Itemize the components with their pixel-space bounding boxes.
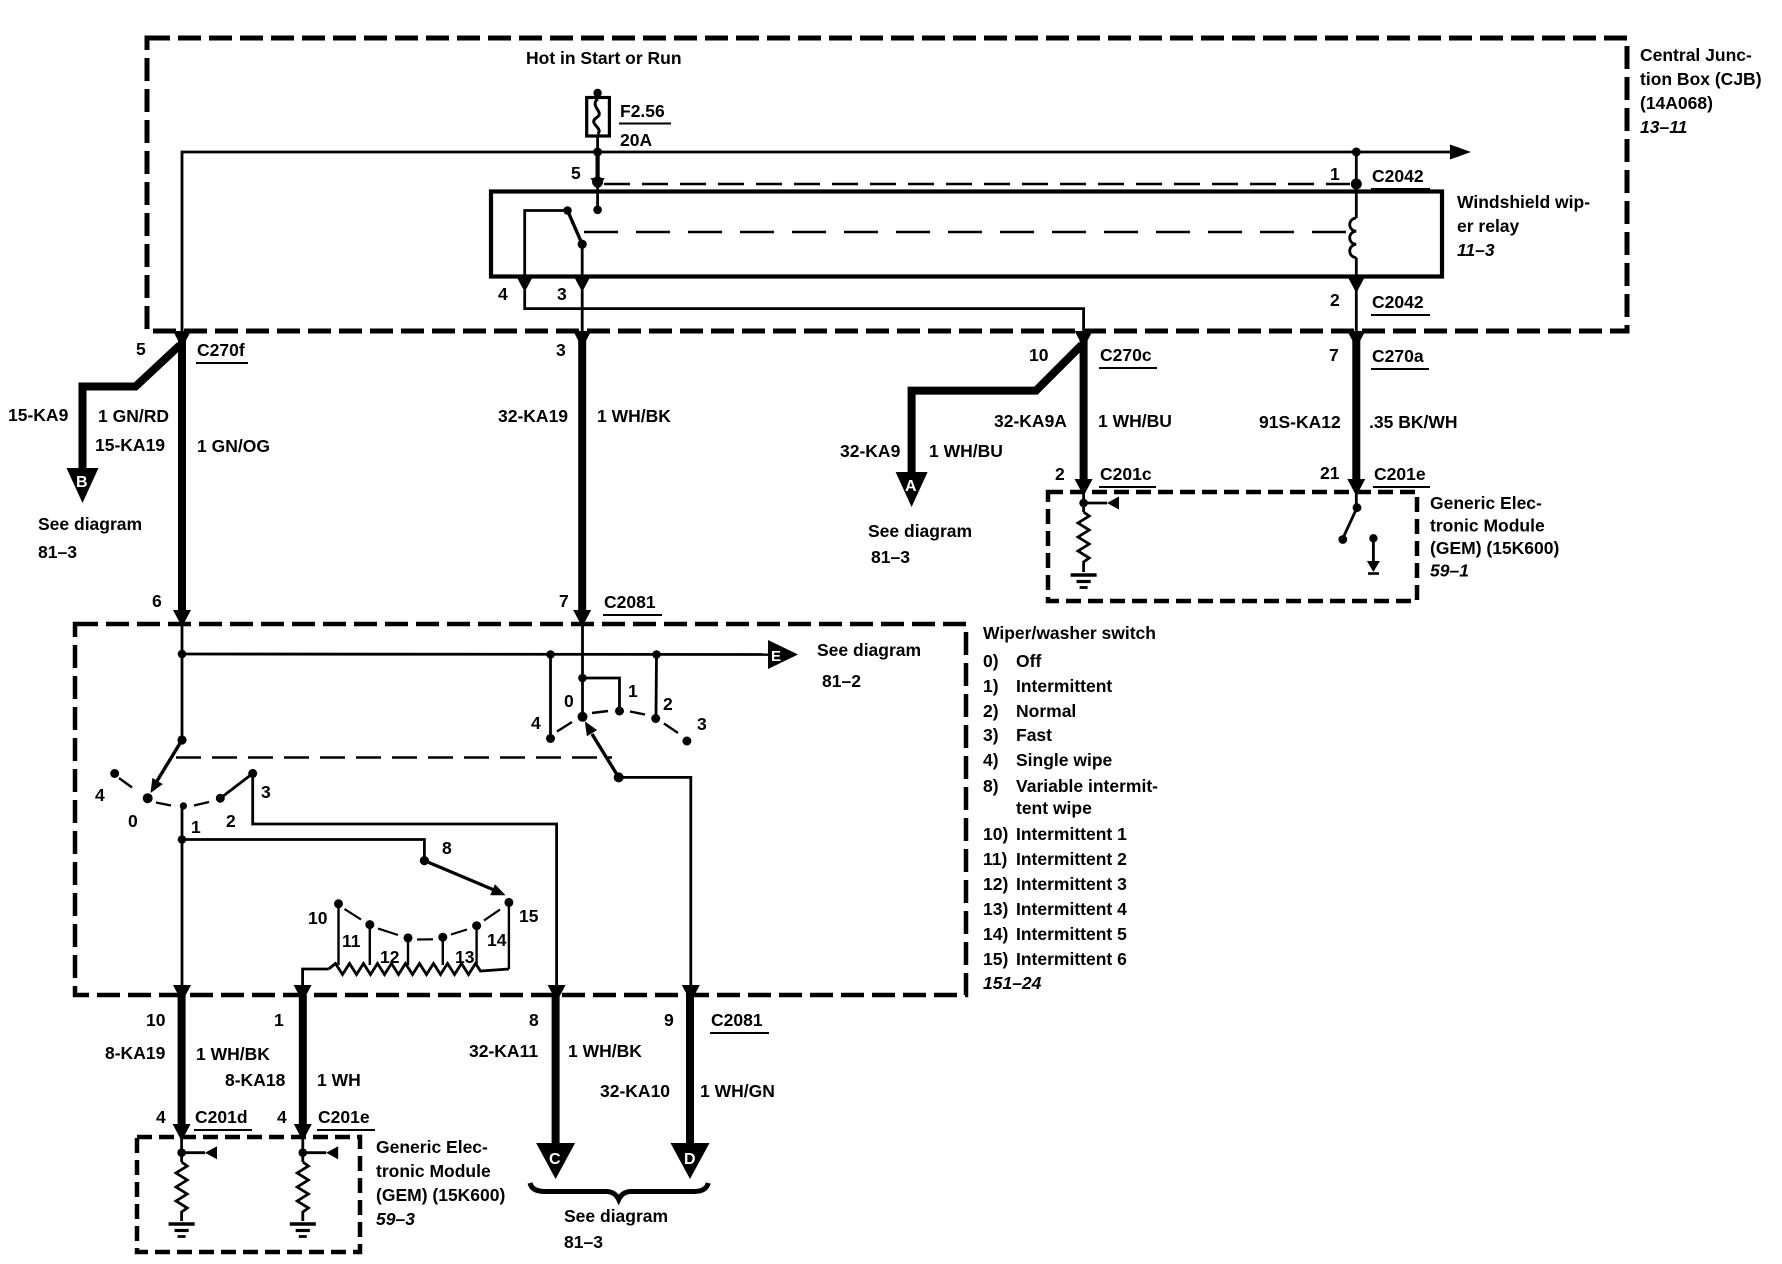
svg-text:10: 10 (146, 1010, 166, 1030)
svg-text:C270f: C270f (197, 340, 245, 360)
arrowhead pin21 into GEM (1347, 479, 1365, 496)
ground (GEM 59-1) (1071, 573, 1097, 577)
svg-text:Off: Off (1016, 651, 1041, 671)
svg-text:8): 8) (983, 776, 999, 796)
wire pin1 to coil (1355, 152, 1358, 218)
svg-text:4: 4 (498, 284, 508, 304)
node left switch pivot (177, 735, 186, 744)
svg-text:Generic Elec-: Generic Elec- (376, 1137, 488, 1157)
svg-text:13): 13) (983, 899, 1008, 919)
svg-text:0): 0) (983, 651, 999, 671)
svg-text:1 WH/BK: 1 WH/BK (568, 1041, 642, 1061)
svg-text:C201e: C201e (1374, 464, 1426, 484)
svg-text:C201d: C201d (195, 1107, 248, 1127)
node relay NC contact (563, 206, 572, 215)
dashed linkage blade to coil (584, 231, 1349, 234)
connector arrowhead wire 3 (573, 331, 591, 348)
connector C270f arrowhead (173, 331, 191, 348)
node: pin1 junction on feed wire (1352, 148, 1361, 157)
svg-text:32-KA19: 32-KA19 (498, 406, 568, 426)
svg-text:1 WH: 1 WH (317, 1070, 361, 1090)
selector arc dashes (345, 909, 501, 940)
svg-text:Variable intermit-: Variable intermit- (1016, 776, 1158, 796)
arrowhead pin7 into switch box (573, 610, 591, 627)
svg-text:1: 1 (1330, 164, 1340, 184)
svg-text:4: 4 (277, 1107, 287, 1127)
svg-text:Intermittent 5: Intermittent 5 (1016, 924, 1127, 944)
wire pin10 inner vertical (181, 806, 184, 986)
GEM2 input node (C201d) (177, 1148, 186, 1157)
svg-text:Single wipe: Single wipe (1016, 750, 1113, 770)
svg-text:8: 8 (529, 1010, 539, 1030)
GEM2 input node (C201e) (299, 1148, 308, 1157)
svg-text:1 WH/BK: 1 WH/BK (597, 406, 671, 426)
wire thick branch to B (83, 345, 181, 470)
svg-text:Intermittent: Intermittent (1016, 676, 1112, 696)
svg-text:4: 4 (156, 1107, 166, 1127)
arrowhead pin 3 leaving relay (574, 277, 590, 292)
svg-text:tronic Module: tronic Module (1430, 516, 1545, 536)
node E-line junction contact4R (546, 650, 555, 659)
wire pin2 to CJB border (1355, 290, 1358, 331)
svg-text:81–3: 81–3 (871, 547, 910, 567)
svg-text:9: 9 (664, 1010, 674, 1030)
wire contact 2L to 3L (220, 774, 252, 799)
arrowhead pin6 into switch box (173, 610, 191, 627)
svg-text:21: 21 (1320, 463, 1340, 483)
svg-text:C270a: C270a (1372, 346, 1424, 366)
variable resistor zigzag (329, 964, 509, 975)
svg-text:6: 6 (152, 591, 162, 611)
svg-text:C201c: C201c (1100, 464, 1152, 484)
right switch blade with arrow (592, 734, 619, 777)
wire pin5 inner stub (596, 189, 599, 206)
wire thick drop C270c to GEM pin2 (1080, 340, 1088, 487)
node GEM switch pivot (1353, 503, 1362, 512)
wire thick drop C270a to GEM pin21 (1352, 340, 1360, 487)
svg-text:20A: 20A (620, 130, 652, 150)
svg-text:3: 3 (697, 714, 707, 734)
arrowhead pin2 into GEM (1075, 479, 1093, 496)
svg-text:15): 15) (983, 949, 1008, 969)
wire junction to selector pivot (182, 840, 424, 858)
relay coil (1350, 218, 1357, 258)
svg-text:8-KA18: 8-KA18 (225, 1070, 286, 1090)
contact 4R node (546, 734, 555, 743)
svg-text:Intermittent 3: Intermittent 3 (1016, 874, 1127, 894)
node selector pivot 8 (420, 856, 429, 865)
contact 0R node (578, 712, 588, 722)
svg-text:2: 2 (1055, 464, 1065, 484)
CJB name label (1640, 45, 1762, 137)
GEM input node pin2 (1079, 499, 1088, 508)
wire: hot feed horizontal with arrow (182, 152, 1452, 331)
windshield wiper relay box (491, 192, 1442, 277)
svg-text:2: 2 (1330, 290, 1340, 310)
arrow A triangle (896, 472, 928, 507)
Central Junction Box (CJB) dashed enclosure (147, 38, 1627, 331)
svg-text:Intermittent 6: Intermittent 6 (1016, 949, 1127, 969)
svg-text:See diagram: See diagram (38, 514, 142, 534)
connector C270a arrowhead (1347, 331, 1365, 348)
GEM (59-1) dashed box (1048, 492, 1417, 601)
dashed mechanical linkage (176, 756, 612, 759)
arrow E triangle (768, 640, 798, 669)
svg-text:32-KA11: 32-KA11 (469, 1041, 538, 1061)
wire thick pin10 to GEM2 (178, 995, 186, 1132)
svg-text:11: 11 (342, 931, 361, 951)
node wiper feed junction (178, 835, 187, 844)
svg-text:81–3: 81–3 (38, 542, 77, 562)
contact 4L arc stub (119, 778, 132, 788)
contact 10 node (334, 899, 343, 908)
contact 2R node (651, 714, 660, 723)
GEM 59-1 name label (1430, 493, 1559, 581)
svg-text:32-KA9: 32-KA9 (840, 441, 901, 461)
svg-text:C2042: C2042 (1372, 166, 1424, 186)
ground (GEM2 left) (169, 1222, 195, 1226)
svg-text:E: E (771, 648, 781, 665)
svg-text:C2081: C2081 (604, 592, 656, 612)
svg-text:(GEM) (15K600): (GEM) (15K600) (376, 1185, 505, 1205)
svg-text:81–3: 81–3 (564, 1232, 603, 1252)
svg-text:3: 3 (556, 340, 566, 360)
brace under C and D (530, 1183, 708, 1200)
svg-text:3: 3 (261, 782, 271, 802)
svg-text:7: 7 (1329, 345, 1339, 365)
svg-text:D: D (684, 1151, 696, 1168)
wire thick pin1 to GEM2 (299, 995, 307, 1132)
svg-text:Central Junc-: Central Junc- (1640, 45, 1752, 65)
GEM2 resistor (left) (176, 1162, 187, 1221)
svg-text:8: 8 (442, 838, 452, 858)
contact 2L node (216, 794, 225, 803)
contact 11 node (365, 920, 374, 929)
contact 1L node (180, 802, 187, 809)
node right switch pivot (614, 772, 624, 782)
svg-text:32-KA10: 32-KA10 (600, 1081, 670, 1101)
svg-text:1: 1 (191, 817, 201, 837)
wire contact 2R drop (655, 655, 658, 716)
svg-text:1): 1) (983, 676, 999, 696)
node speed switch tee (578, 674, 587, 683)
svg-text:1: 1 (274, 1010, 284, 1030)
svg-text:See diagram: See diagram (817, 640, 921, 660)
svg-text:C270c: C270c (1100, 345, 1152, 365)
svg-text:15-KA9: 15-KA9 (8, 405, 69, 425)
wire pin21 inner stub (1355, 492, 1358, 505)
wire pin4 to C270c drop (525, 290, 1084, 331)
svg-text:4: 4 (531, 713, 541, 733)
arrowhead pin10 at box bottom (173, 985, 191, 1002)
svg-text:C2042: C2042 (1372, 292, 1424, 312)
svg-text:2: 2 (663, 694, 673, 714)
wire pivot to pin9 drop (619, 777, 691, 986)
arrowhead pin4 C201d into GEM2 (173, 1124, 191, 1141)
contact 12 node (404, 933, 413, 942)
svg-text:15: 15 (519, 906, 539, 926)
GEM2 resistor (right) (297, 1162, 308, 1221)
wire contact 3L to pin8 drop (253, 774, 557, 987)
svg-text:B: B (76, 474, 88, 491)
wire pin7 inner vertical (581, 624, 584, 714)
node E-line junction contact2R (652, 650, 661, 659)
svg-text:91S-KA12: 91S-KA12 (1259, 412, 1341, 432)
svg-text:10: 10 (1029, 345, 1049, 365)
wire pin6 inner vertical (181, 624, 184, 740)
GEM switch blade (1343, 508, 1357, 538)
contact 14 node (472, 921, 481, 930)
wire C201d inner stub (180, 1137, 183, 1162)
GEM2 signal tap symbol (left) (182, 1151, 205, 1154)
node GEM switch blade end (1338, 535, 1347, 544)
svg-text:See diagram: See diagram (564, 1206, 668, 1226)
contact stubs down to resistor (339, 902, 509, 969)
node relay common (578, 240, 587, 249)
contact 13 node (438, 933, 447, 942)
svg-text:2): 2) (983, 701, 999, 721)
contact 3L node (248, 769, 257, 778)
wire pin3 to CJB border (581, 290, 584, 331)
svg-text:1 WH/GN: 1 WH/GN (700, 1081, 775, 1101)
svg-text:14: 14 (487, 930, 507, 950)
svg-text:4): 4) (983, 750, 999, 770)
wire thick pin8 to C (552, 995, 560, 1144)
svg-text:F2.56: F2.56 (620, 101, 665, 121)
GEM 59-3 name label (376, 1137, 505, 1229)
contact 4L node (110, 769, 119, 778)
dashed relay socket line pin5 to pin1 (604, 183, 1350, 186)
switch position list (983, 651, 1158, 993)
arrowhead of feed wire (1450, 145, 1471, 160)
wire contact 4R drop (549, 655, 552, 736)
svg-text:5: 5 (571, 163, 581, 183)
svg-text:1 WH/BU: 1 WH/BU (1098, 411, 1172, 431)
arrow D triangle (671, 1143, 710, 1179)
svg-text:Intermittent 4: Intermittent 4 (1016, 899, 1127, 919)
svg-text:Windshield wip-: Windshield wip- (1457, 192, 1590, 212)
svg-text:A: A (905, 478, 917, 495)
svg-text:tion Box (CJB): tion Box (CJB) (1640, 69, 1762, 89)
svg-text:.35 BK/WH: .35 BK/WH (1369, 412, 1457, 432)
svg-text:C: C (549, 1151, 561, 1168)
connector bump pin 5 (592, 177, 603, 188)
wire fuse top stub (596, 93, 599, 98)
svg-text:0: 0 (128, 811, 138, 831)
svg-text:10: 10 (308, 908, 328, 928)
svg-text:(GEM) (15K600): (GEM) (15K600) (1430, 538, 1559, 558)
arrowhead pin1 at box bottom (294, 985, 312, 1002)
wire tee to contact 1R (583, 678, 620, 708)
svg-text:14): 14) (983, 924, 1008, 944)
fuse F2.56 20A (587, 98, 610, 137)
selector blade with arrow (424, 861, 494, 890)
svg-text:4: 4 (95, 785, 105, 805)
wire thick pin9 to D (686, 995, 694, 1144)
arrowhead pin 4 leaving relay (517, 277, 533, 292)
node: fuse top terminal (593, 89, 601, 97)
relay name label (1457, 192, 1590, 260)
svg-text:(14A068): (14A068) (1640, 93, 1713, 113)
svg-text:11–3: 11–3 (1457, 240, 1495, 260)
svg-text:C2081: C2081 (711, 1010, 763, 1030)
svg-text:59–1: 59–1 (1430, 561, 1469, 581)
wire C201e inner stub (301, 1137, 304, 1162)
wire fuse bottom to feed line (596, 136, 599, 152)
svg-text:1 WH/BK: 1 WH/BK (196, 1044, 270, 1064)
svg-text:151–24: 151–24 (983, 973, 1042, 993)
contact 1R node (615, 707, 624, 716)
svg-text:Hot in Start or Run: Hot in Start or Run (526, 48, 682, 68)
arrowhead pin 2 leaving relay (1348, 278, 1364, 293)
arrowhead pin8 at box bottom (548, 985, 566, 1002)
relay switch blade (568, 211, 583, 245)
contact 0L node (143, 793, 153, 803)
svg-text:3: 3 (557, 284, 567, 304)
left switch arc dashes (156, 802, 209, 806)
svg-text:81–2: 81–2 (822, 671, 861, 691)
svg-text:0: 0 (564, 691, 574, 711)
svg-text:1: 1 (628, 681, 638, 701)
svg-text:13: 13 (455, 947, 475, 967)
wire thick branch to A (912, 345, 1082, 474)
svg-text:13–11: 13–11 (1640, 117, 1687, 137)
arrow C triangle (536, 1143, 575, 1179)
svg-text:1 GN/RD: 1 GN/RD (98, 406, 169, 426)
connector bump pin 1 (1351, 179, 1362, 190)
wire relay pin 5 drop (595, 152, 599, 178)
connector C270c arrowhead (1075, 331, 1093, 348)
GEM pulldown resistor (1078, 512, 1089, 572)
svg-text:tent wipe: tent wipe (1016, 798, 1092, 818)
GEM signal tap symbol (1084, 502, 1107, 505)
wire resistor to pin1 drop (303, 969, 329, 986)
wiper/washer switch dashed box (75, 624, 966, 995)
svg-text:1 GN/OG: 1 GN/OG (197, 436, 270, 456)
svg-text:10): 10) (983, 824, 1008, 844)
svg-text:Normal: Normal (1016, 701, 1076, 721)
wire common to pin3 (581, 244, 584, 277)
svg-text:See diagram: See diagram (868, 521, 972, 541)
wire E line (182, 653, 769, 656)
wire thick drop C270f to switch pin6 (178, 340, 186, 618)
svg-text:15-KA19: 15-KA19 (95, 435, 165, 455)
svg-text:Wiper/washer switch: Wiper/washer switch (983, 623, 1156, 643)
contact 15 node (504, 898, 513, 907)
svg-text:Fast: Fast (1016, 725, 1052, 745)
svg-text:12): 12) (983, 874, 1008, 894)
node relay NO contact (pin 5) (593, 206, 602, 215)
node: fuse junction (593, 148, 602, 157)
svg-text:C201e: C201e (318, 1107, 370, 1127)
svg-text:59–3: 59–3 (376, 1209, 415, 1229)
GEM switch contact (1369, 534, 1377, 542)
right switch arc dashes (557, 711, 678, 733)
node E-line junction (178, 650, 187, 659)
wire pin2 inner stub (1082, 492, 1085, 512)
svg-text:7: 7 (559, 591, 569, 611)
relay contact: pin4 branch (525, 211, 568, 277)
svg-text:1 WH/BU: 1 WH/BU (929, 441, 1003, 461)
svg-text:2: 2 (226, 811, 236, 831)
arrowhead pin 5 into relay (591, 178, 605, 191)
contact 3R node (682, 737, 691, 746)
svg-text:Intermittent 2: Intermittent 2 (1016, 849, 1127, 869)
svg-text:32-KA9A: 32-KA9A (994, 411, 1067, 431)
svg-text:11): 11) (983, 849, 1007, 869)
ground (GEM2 right) (290, 1222, 316, 1226)
svg-text:8-KA19: 8-KA19 (105, 1043, 166, 1063)
svg-text:5: 5 (136, 339, 146, 359)
left switch blade with arrow (157, 740, 182, 781)
GEM2 signal tap symbol (right) (303, 1151, 326, 1154)
svg-text:er relay: er relay (1457, 216, 1520, 236)
wire thick drop to switch pin7 (578, 340, 586, 618)
arrowhead pin9 at box bottom (682, 985, 700, 1002)
svg-text:3): 3) (983, 725, 999, 745)
wire coil to pin2 (1355, 258, 1358, 277)
svg-text:Generic Elec-: Generic Elec- (1430, 493, 1542, 513)
arrowhead pin4 C201e into GEM2 (294, 1124, 312, 1141)
GEM (59-3) dashed box (137, 1137, 360, 1252)
svg-text:Intermittent 1: Intermittent 1 (1016, 824, 1127, 844)
arrow B triangle (67, 468, 99, 503)
svg-text:tronic Module: tronic Module (376, 1161, 491, 1181)
